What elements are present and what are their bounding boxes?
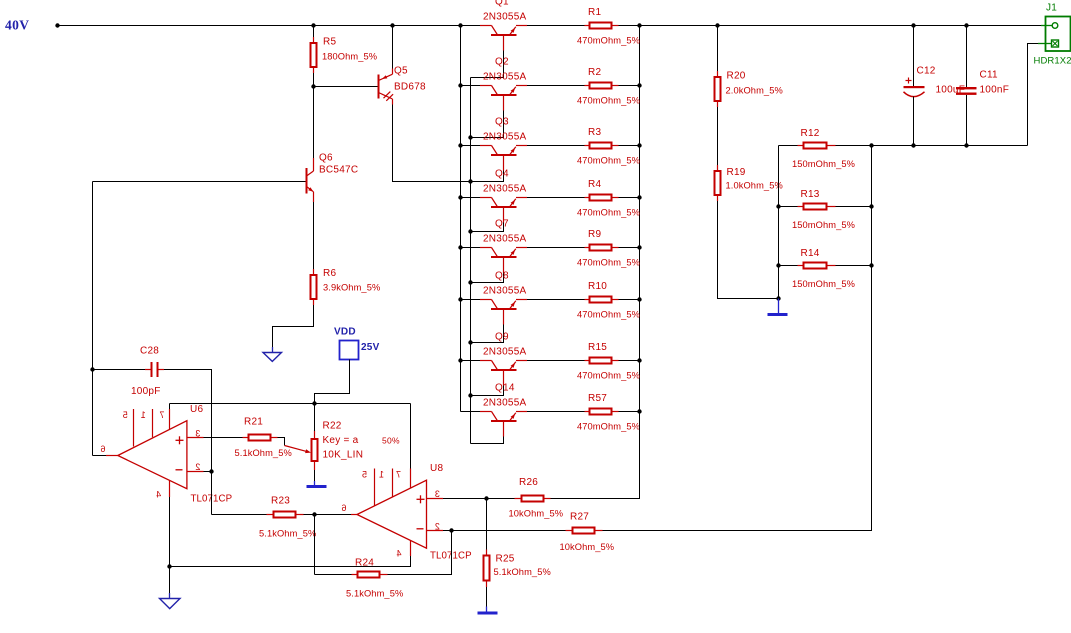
wire inverting node down to R23 [211,472,213,515]
wire 40V rail [58,25,481,27]
wire collector bus to Q3 [461,145,481,147]
node analog ground [167,564,171,568]
wire R14 left [779,265,798,267]
wire C11 to sense row [966,95,968,146]
svg-text:R4: R4 [588,179,601,190]
wire Q7 base [471,273,504,283]
wire Q2 emitter to R2 [527,85,585,87]
wire collector bus to Q7 [461,247,481,249]
wire R26 to emitter bus [551,412,640,499]
resistor R1 [585,25,591,27]
svg-text:BC547C: BC547C [319,165,358,176]
svg-text:Key = a: Key = a [323,435,359,446]
svg-text:Q5: Q5 [394,66,408,77]
wire R22 to ground [314,470,316,481]
wire Q9 emitter to R15 [527,360,585,362]
wire R2 to emitter bus [619,85,640,87]
svg-text:R6: R6 [323,268,336,279]
svg-text:10kOhm_5%: 10kOhm_5% [509,509,564,519]
svg-text:C28: C28 [140,346,159,357]
shunt bus dots [776,204,780,208]
svg-text:J1: J1 [1046,3,1057,14]
resistor R24 [352,574,359,576]
resistor R12 [798,145,804,147]
svg-text:7: 7 [159,410,164,420]
op-amp U8 [357,480,427,548]
resistor R21 [243,437,249,439]
svg-text:R3: R3 [588,127,601,138]
svg-text:6: 6 [100,444,105,454]
wire feedback left vertical [92,182,94,456]
wire U6 pin3 to R21 [204,437,243,439]
transistor Q7 [480,247,492,249]
wire R23 to U8 output [304,514,352,516]
wire R13 left [779,206,798,208]
svg-text:Q8: Q8 [495,271,509,282]
svg-text:5.1kOhm_5%: 5.1kOhm_5% [346,589,403,599]
svg-text:5: 5 [123,410,128,420]
svg-text:R12: R12 [801,128,820,139]
resistor R6 [313,269,315,276]
wire sense row to J1 pin2 [1028,44,1039,146]
wire Q8 emitter to R10 [527,299,585,301]
wire U8 pin3 out [443,498,515,500]
svg-text:5.1kOhm_5%: 5.1kOhm_5% [259,529,316,539]
wire collector bus to Q14 [461,411,481,413]
wire to ground triangle [169,567,171,594]
wire U8 pin2 out [443,530,566,532]
wire C12 to sense row [913,97,915,146]
wire collector bus to Q2 [461,85,481,87]
svg-text:U8: U8 [430,463,443,474]
svg-text:Q4: Q4 [495,169,509,180]
resistor R15 [585,360,591,362]
svg-text:R1: R1 [588,7,601,18]
svg-text:2N3055A: 2N3055A [483,398,527,409]
resistor R23 [267,514,274,516]
ground (shunt) [778,299,780,314]
svg-text:2: 2 [435,522,440,532]
transistor Q3 [480,145,492,147]
wire to Q5 base [314,86,378,88]
capacitor C11 [956,87,977,89]
wire Q3 emitter to R3 [527,145,585,147]
ground (op-amps) [169,593,171,599]
svg-text:4: 4 [156,490,161,500]
resistor R10 [585,299,591,301]
svg-text:R57: R57 [588,393,607,404]
transistor Q5 [378,75,380,99]
svg-text:Q1: Q1 [495,0,509,8]
wire Q7 emitter to R9 [527,247,585,249]
wire emitter bus [639,26,641,499]
wire Q4 emitter to R4 [527,197,585,199]
svg-text:C11: C11 [980,70,999,81]
svg-text:100nF: 100nF [980,85,1010,96]
svg-text:U6: U6 [190,404,203,415]
svg-text:4: 4 [396,549,401,559]
svg-text:1: 1 [141,410,146,420]
wire R26 node to R25 [486,499,488,556]
ground (R25) [486,607,488,612]
op-amp U6 [118,421,187,489]
wire pin4 bus [170,556,411,567]
wire R3 to emitter bus [619,145,640,147]
wire Q1 emitter to R1 [527,25,585,27]
svg-text:5.1kOhm_5%: 5.1kOhm_5% [494,567,551,577]
wire U6 output [93,455,107,457]
connector J1 [1046,17,1071,52]
svg-text:2N3055A: 2N3055A [483,234,527,245]
node U6 inverting input [209,469,213,473]
svg-text:10kOhm_5%: 10kOhm_5% [560,542,615,552]
svg-text:6: 6 [341,503,346,513]
wire supply rail [170,403,411,405]
svg-text:7: 7 [396,470,401,480]
resistor R19 [717,165,719,172]
wire R5 bottom to Q6 collector [313,73,315,158]
resistor R26 [515,498,522,500]
wire R19 to ground node [718,201,779,299]
wire R12 right [836,145,872,147]
resistor R57 [585,411,591,413]
svg-text:R9: R9 [588,229,601,240]
transistor Q6 [306,168,308,194]
svg-text:150mOhm_5%: 150mOhm_5% [792,159,855,169]
svg-text:100pF: 100pF [131,386,161,397]
transistor Q1 [480,25,492,27]
svg-text:R25: R25 [496,554,515,565]
wire Q5 emitter to rail [392,26,394,69]
wire R20 to R19 [717,107,719,166]
svg-text:2N3055A: 2N3055A [483,286,527,297]
svg-text:470mOhm_5%: 470mOhm_5% [577,310,640,320]
svg-text:3.9kOhm_5%: 3.9kOhm_5% [323,283,380,293]
wire U6 pin7 up [169,404,171,410]
svg-text:50%: 50% [382,436,400,446]
wire R25 to ground [486,587,488,607]
wire collector bus to Q8 [461,299,481,301]
svg-text:2.0kOhm_5%: 2.0kOhm_5% [726,86,783,96]
resistor R4 [585,197,591,199]
resistor R13 [798,206,804,208]
svg-text:R26: R26 [519,477,538,488]
wire collector bus [460,26,462,412]
wire output rail right [619,25,1042,27]
wire to C28 [93,369,146,371]
svg-text:470mOhm_5%: 470mOhm_5% [577,258,640,268]
transistor Q2 [480,85,492,87]
emitter bus dots [637,83,641,87]
svg-text:R23: R23 [271,496,290,507]
svg-text:3: 3 [435,489,440,499]
transistor Q9 [480,360,492,362]
wire Q6 collector up [313,87,315,159]
wire R21 to wiper [278,438,285,446]
svg-text:VDD: VDD [334,327,356,338]
capacitor C28 [145,369,151,371]
svg-text:TL071CP: TL071CP [430,551,472,562]
node R24 tap [312,512,316,516]
svg-text:1.0kOhm_5%: 1.0kOhm_5% [726,181,783,191]
svg-text:470mOhm_5%: 470mOhm_5% [577,422,640,432]
svg-text:Q2: Q2 [495,57,509,68]
ground (R6) [272,347,274,353]
node feedback tap [449,528,453,532]
svg-text:2N3055A: 2N3055A [483,12,527,23]
svg-text:470mOhm_5%: 470mOhm_5% [577,371,640,381]
transistor Q14 [480,411,492,413]
wire Q8 base [471,325,504,343]
resistor R5 [313,26,315,43]
wire R27 to sense node [603,146,872,531]
wire collector bus to Q9 [461,360,481,362]
svg-text:C12: C12 [917,66,936,77]
wire R9 to emitter bus [619,247,640,249]
wire rail to R22 [314,404,316,432]
svg-text:470mOhm_5%: 470mOhm_5% [577,36,640,46]
svg-text:R19: R19 [727,167,746,178]
svg-text:R22: R22 [323,421,342,432]
wire Q9 base [471,386,504,396]
wire rail to C12 [913,26,915,87]
wire Q14 emitter to R57 [527,411,585,413]
svg-text:470mOhm_5%: 470mOhm_5% [577,208,640,218]
svg-text:R21: R21 [244,417,263,428]
junction dots on top rail [55,23,59,27]
wire R13 right [836,206,872,208]
resistor R27 [566,530,573,532]
potentiometer R22 [314,431,316,440]
wire output to R24 [314,515,316,575]
resistor R2 [585,85,591,87]
resistor R14 [798,265,804,267]
svg-text:R10: R10 [588,281,607,292]
wire Q6 base [93,181,306,183]
svg-text:R13: R13 [801,189,820,200]
wire shunt bus [778,146,780,299]
collector bus dots [458,83,462,87]
svg-text:HDR1X2: HDR1X2 [1034,56,1071,67]
wire C28 to inverting input [164,370,212,515]
svg-text:2N3055A: 2N3055A [483,132,527,143]
svg-text:1: 1 [379,470,384,480]
svg-text:5.1kOhm_5%: 5.1kOhm_5% [235,448,292,458]
resistor R3 [585,145,591,147]
svg-text:R20: R20 [727,71,746,82]
wire Q5 collector to base bus [393,105,471,182]
svg-text:3: 3 [195,429,200,439]
wire R24 left [315,574,352,576]
svg-text:470mOhm_5%: 470mOhm_5% [577,156,640,166]
svg-text:R2: R2 [588,67,601,78]
resistor R20 [717,71,719,78]
wire Q3 base [471,171,504,182]
base bus dots [468,135,472,139]
power VDD symbol [340,341,359,360]
transistor Q4 [480,197,492,199]
wire Q6 emitter to R6 [313,202,315,275]
wire output rail [527,25,585,27]
svg-text:2N3055A: 2N3055A [483,72,527,83]
resistor R25 [486,550,488,557]
svg-text:25V: 25V [361,342,380,353]
svg-text:150mOhm_5%: 150mOhm_5% [792,220,855,230]
wire R4 to emitter bus [619,197,640,199]
capacitor C12 [906,80,912,82]
svg-text:Q7: Q7 [495,219,509,230]
svg-text:2N3055A: 2N3055A [483,347,527,358]
wire rail to R20 [717,26,719,73]
wire R14 right [836,265,872,267]
wire R6 to ground [273,305,314,347]
svg-text:Q14: Q14 [495,383,515,394]
ground (R22) [314,481,316,485]
wire supply to U8 pin7 [410,404,412,471]
svg-text:R15: R15 [588,342,607,353]
wire R24 to inverting input [388,531,452,575]
wire R12 left [779,145,798,147]
svg-text:R27: R27 [570,512,589,523]
wire Q1 base [471,51,504,78]
wire R10 to emitter bus [619,299,640,301]
node R5/Q5/Q6 junction [311,84,315,88]
svg-text:R5: R5 [323,37,336,48]
wire Q14 base [471,437,504,444]
svg-text:BD678: BD678 [394,82,426,93]
wire R23 left [212,514,267,516]
sense node dots [869,143,873,147]
svg-text:5: 5 [362,470,367,480]
node VDD junction [312,401,316,405]
svg-text:Q6: Q6 [319,153,333,164]
svg-text:150mOhm_5%: 150mOhm_5% [792,279,855,289]
svg-text:2: 2 [195,462,200,472]
wire R15 to emitter bus [619,360,640,362]
svg-text:2N3055A: 2N3055A [483,184,527,195]
svg-text:Q9: Q9 [495,332,509,343]
wire U6 pin2 [204,471,212,473]
transistor Q8 [480,299,492,301]
node R25 tap [484,496,488,500]
wire base bus [470,78,472,444]
svg-text:180Ohm_5%: 180Ohm_5% [322,52,377,62]
wire VDD to rail [315,360,350,404]
wire rail to C11 [966,26,968,88]
wire R57 to emitter bus [619,411,640,413]
svg-text:R14: R14 [801,248,820,259]
svg-text:Q3: Q3 [495,117,509,128]
wire U6 pin4 down [169,497,171,567]
resistor R9 [585,247,591,249]
sense row dots [911,143,915,147]
wire sense row [872,145,1028,147]
wire Q2 base [471,111,504,138]
svg-text:40V: 40V [5,18,29,33]
svg-text:10K_LIN: 10K_LIN [323,450,364,461]
svg-text:470mOhm_5%: 470mOhm_5% [577,96,640,106]
wire collector bus to Q4 [461,197,481,199]
node C28 tap [90,367,94,371]
wire Q4 base [471,223,504,232]
node shunt ground [776,296,780,300]
